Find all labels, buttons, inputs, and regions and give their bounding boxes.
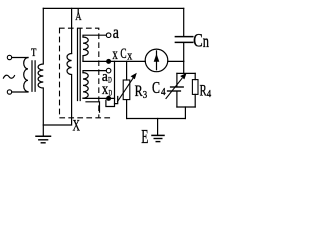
wire source top (12, 57, 28, 59)
svg-text:A: A (75, 9, 82, 23)
capacitor Cn branch (183, 8, 185, 36)
R3 wiper arrow (118, 77, 135, 102)
svg-text:D: D (108, 75, 112, 84)
C4 arrow (166, 78, 182, 98)
ground E (157, 119, 159, 136)
capacitor Cn plates (175, 36, 192, 38)
ground left (36, 135, 51, 137)
svg-text:C: C (120, 46, 126, 62)
transformer T core (32, 61, 35, 92)
wire link to R3 wiper (115, 97, 118, 104)
galvanometer G (145, 49, 168, 72)
wire top rail (43, 7, 183, 9)
wire to terminal a (83, 35, 106, 37)
measuring winding aD-xD (83, 73, 88, 99)
svg-text:4: 4 (161, 86, 166, 98)
node x junction dot (106, 59, 111, 64)
capacitor C4 plates (171, 86, 184, 88)
wire galvanometer right (168, 60, 184, 62)
test transformer core (78, 29, 81, 101)
svg-text:x: x (127, 48, 132, 63)
wire drop to bottom rail (184, 107, 186, 119)
wire top sub-rail C4/R4 (177, 72, 195, 74)
wire node A feed (71, 8, 73, 53)
svg-text:n: n (203, 31, 209, 51)
wire source bottom (12, 91, 28, 93)
wire V1 from node x down (106, 61, 115, 106)
resistor R4 lead (194, 73, 196, 79)
capacitor C4 lead (176, 73, 178, 86)
svg-text:4: 4 (207, 89, 212, 100)
wire bottom sub-rail (177, 106, 195, 108)
resistor R4 (192, 80, 198, 95)
wire R3 top lead (126, 61, 128, 80)
wire to terminal aD (83, 71, 106, 73)
wire bottom rail (127, 118, 186, 120)
wire R3 bottom lead (126, 100, 128, 119)
node xD junction dot (106, 96, 111, 101)
wire shield tap (86, 102, 100, 112)
dashed enclosure (test transformer) (60, 28, 112, 118)
svg-text:E: E (141, 127, 148, 148)
svg-text:3: 3 (143, 89, 148, 101)
wire node x / Cx arm (83, 60, 145, 62)
svg-text:C: C (193, 30, 203, 51)
svg-text:D: D (109, 88, 113, 97)
transformer T primary winding (24, 58, 28, 92)
secondary winding a-x (83, 37, 88, 61)
transformer T secondary winding (38, 8, 43, 135)
terminal a (106, 33, 111, 38)
label ~ (AC source wave) (3, 75, 14, 78)
terminal top-left (7, 55, 11, 59)
svg-text:R: R (135, 83, 143, 100)
wire xD (83, 97, 115, 99)
svg-text:X: X (73, 118, 81, 135)
terminal aD (106, 68, 111, 73)
svg-text:a: a (113, 22, 119, 42)
wire junction to bridge lower arms (183, 61, 185, 73)
svg-text:x: x (112, 46, 117, 63)
svg-text:C: C (152, 78, 160, 97)
HV winding A-X (43, 54, 71, 126)
resistor R3 (123, 80, 130, 100)
svg-text:T: T (31, 45, 37, 59)
node A tick (77, 9, 79, 14)
svg-text:x: x (102, 81, 109, 98)
terminal bottom-left (7, 90, 11, 94)
